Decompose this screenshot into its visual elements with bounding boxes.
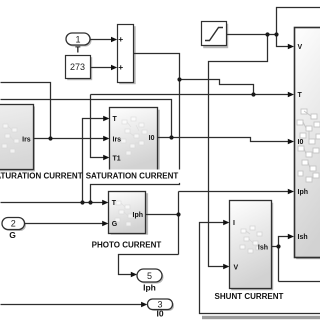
- arrowhead into outport 5: [131, 272, 137, 277]
- svg-text:V: V: [234, 265, 239, 272]
- wire Iph riser: [178, 192, 180, 255]
- wire inport1 to sum: [91, 39, 113, 41]
- svg-text:Iph: Iph: [143, 282, 156, 292]
- arrowhead into PV Iph: [288, 189, 294, 194]
- arrowhead into photo T: [102, 200, 108, 205]
- wire T riser to sat2 T input: [83, 119, 105, 203]
- wire kelvin down to T1: [91, 95, 105, 158]
- wire I0 output to PV block: [158, 138, 289, 142]
- svg-text:1: 1: [75, 34, 80, 44]
- svg-text:Irs: Irs: [113, 136, 122, 143]
- svg-text:Irs: Irs: [22, 136, 31, 143]
- junction T net kelvin feed: [88, 200, 92, 204]
- svg-text:T: T: [298, 92, 303, 99]
- arrowhead into PV V: [288, 44, 294, 49]
- watermark of PV main block: [297, 109, 320, 182]
- inport 2 (G): [2, 218, 25, 230]
- wire kelvin main horizontal to PV T: [91, 94, 289, 96]
- wire Ish riser to PV Ish: [279, 237, 289, 282]
- svg-text:I0: I0: [298, 139, 304, 146]
- svg-text:2: 2: [11, 219, 16, 229]
- wire saturation out to V riser: [227, 34, 277, 36]
- watermark of subsystem 1: [2, 124, 19, 153]
- watermark of PHOTO CURRENT: [115, 201, 133, 226]
- svg-text:PHOTO CURRENT: PHOTO CURRENT: [92, 240, 162, 249]
- junction kelvin main line: [251, 92, 255, 96]
- saturation block: [202, 22, 227, 46]
- arrowhead into photo G: [102, 221, 108, 226]
- wire I0 exits left: [1, 100, 172, 138]
- wire kelvin zigzag branch: [180, 80, 254, 95]
- wire Iph to PV block: [179, 191, 289, 193]
- wire Irs output: [34, 138, 105, 140]
- outport 5 (Iph): [137, 269, 162, 282]
- svg-text:T: T: [75, 45, 81, 55]
- arrowhead into PV T: [288, 92, 294, 97]
- arrowhead into PV I0: [288, 139, 294, 144]
- junction kelvin riser: [177, 77, 181, 81]
- svg-text:Ish: Ish: [258, 244, 268, 251]
- svg-text:T: T: [112, 200, 117, 207]
- wire V riser from top: [277, 8, 320, 47]
- svg-text:273: 273: [70, 62, 85, 72]
- svg-text:I: I: [233, 220, 235, 227]
- saturation block icon: [205, 28, 223, 41]
- wire sum output down-left to T distribution: [91, 54, 180, 203]
- junction T net branch to sat2 T: [80, 200, 84, 204]
- wire G to photo current: [25, 223, 104, 225]
- svg-text:T: T: [113, 116, 118, 123]
- wire Ish output: [272, 246, 279, 248]
- svg-text:G: G: [9, 230, 16, 240]
- junction I0 net: [169, 135, 173, 139]
- svg-text:5: 5: [147, 271, 152, 281]
- watermark of subsystem 2: [121, 117, 147, 155]
- sum block: [118, 25, 134, 83]
- svg-text:SATURATION CURRENT: SATURATION CURRENT: [0, 172, 83, 181]
- subsystem PHOTO CURRENT: [109, 192, 146, 234]
- svg-text:I0: I0: [156, 309, 163, 319]
- svg-text:G: G: [112, 221, 118, 228]
- arrowhead into sum input 2: [111, 65, 117, 70]
- svg-text:SATURATION CURRENT: SATURATION CURRENT: [86, 172, 179, 181]
- subsystem SATURATION CURRENT 1 (cropped left): [0, 105, 34, 170]
- junction Irs net: [48, 136, 52, 140]
- wire Iph down to outport 5: [119, 255, 179, 275]
- arrowhead into shunt V: [223, 264, 229, 269]
- arrowhead into PV Ish: [288, 234, 294, 239]
- watermark of SHUNT CURRENT: [240, 226, 262, 253]
- arrowhead into sat2 T: [103, 116, 109, 121]
- junction Iph net: [176, 212, 180, 216]
- svg-text:Iph: Iph: [133, 212, 144, 219]
- wire I0 to outport 3: [1, 304, 144, 306]
- wire Irs branch up exits left: [1, 83, 51, 139]
- svg-text:V: V: [298, 44, 303, 51]
- junction Ish net: [276, 244, 280, 248]
- wire I input from bottom right: [200, 223, 320, 314]
- wire Iph output: [146, 214, 179, 216]
- wire Ish exits right: [279, 281, 320, 283]
- svg-text:I0: I0: [149, 135, 155, 142]
- wire V branch to shunt V: [209, 35, 268, 267]
- junction V branch to shunt: [265, 32, 269, 36]
- svg-text:Ish: Ish: [298, 234, 308, 241]
- outport 3 (I0): [148, 299, 173, 310]
- wire 273 to sum: [91, 67, 113, 69]
- PV cell main block (cropped right): [295, 28, 320, 258]
- wire shadow bar bottom right: [202, 316, 320, 319]
- svg-text:Iph: Iph: [298, 189, 309, 196]
- constant 273: [66, 56, 91, 79]
- arrowhead into sat2 T1: [103, 155, 109, 160]
- svg-text:SHUNT CURRENT: SHUNT CURRENT: [215, 292, 284, 301]
- junction V riser: [274, 32, 278, 36]
- svg-text:T1: T1: [113, 155, 121, 162]
- svg-text:+: +: [118, 34, 123, 44]
- subsystem SHUNT CURRENT: [230, 201, 272, 289]
- inport 1 (T): [66, 33, 90, 45]
- svg-text:+: +: [118, 62, 123, 72]
- arrowhead into outport 3: [141, 302, 147, 307]
- wire T into photo current: [1, 202, 104, 204]
- arrowhead into sum input 1: [111, 37, 117, 42]
- arrowheads: [102, 37, 294, 307]
- subsystem SATURATION CURRENT 2: [110, 108, 158, 171]
- arrowhead into shunt I: [223, 220, 229, 225]
- arrowhead into sat2 Irs: [103, 136, 109, 141]
- label background SATURATION CURRENT 2: [85, 170, 181, 183]
